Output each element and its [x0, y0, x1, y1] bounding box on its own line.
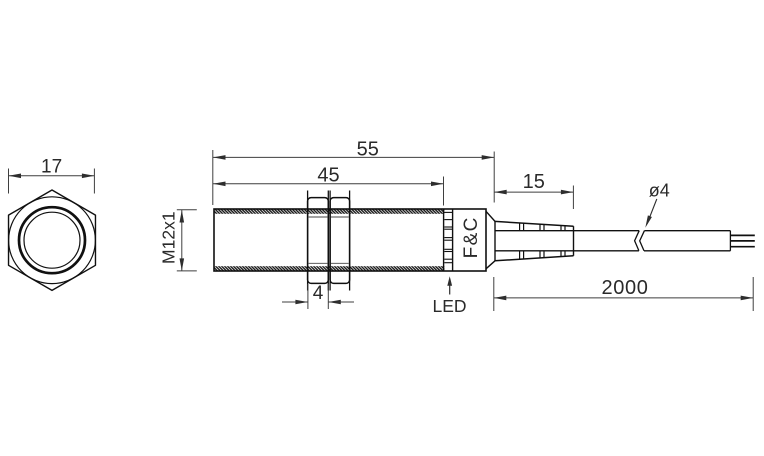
svg-text:45: 45 — [317, 164, 339, 186]
svg-text:15: 15 — [523, 171, 545, 193]
svg-text:LED: LED — [432, 296, 466, 316]
svg-text:4: 4 — [313, 283, 324, 304]
svg-text:17: 17 — [41, 156, 62, 177]
svg-text:2000: 2000 — [602, 277, 649, 299]
svg-text:M12x1: M12x1 — [159, 211, 179, 264]
svg-text:55: 55 — [357, 138, 379, 160]
svg-text:F&C: F&C — [461, 216, 482, 258]
svg-text:ø4: ø4 — [649, 180, 670, 200]
